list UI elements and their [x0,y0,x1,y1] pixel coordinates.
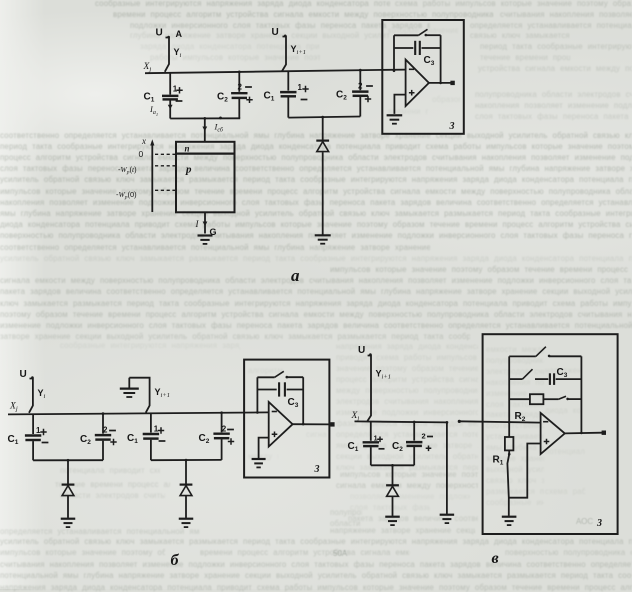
resistor R1 (v) [505,437,514,450]
junction dot C2b [102,412,105,415]
plus input mark (a) [409,90,415,96]
svg-text:n: n [185,144,190,154]
storage bus wire (second pair, a) [288,117,360,118]
svg-text:а: а [291,266,300,285]
wire I_cb to n-p structure [204,118,206,142]
capacitor C2 (second, a) [359,70,361,90]
substrate ground wire (v) [446,421,449,424]
wire X_j bus (b) [8,412,269,414]
svg-text:1: 1 [36,426,41,435]
gate electrode Y_i+1 wire (v) [367,356,371,422]
op-amp U1 (a) [406,60,429,107]
feedback left rail (v) [508,356,510,437]
ground (diode a) [315,234,331,236]
svg-text:2: 2 [238,83,243,92]
output wire (v) [565,432,602,435]
svg-text:Yi: Yi [38,388,46,400]
svg-text:C2: C2 [392,441,403,453]
svg-text:3: 3 [314,464,320,475]
output terminal (b) [330,422,334,426]
junction dot input-rail (v) [508,421,511,424]
capacitor C2 (second, b) [221,413,223,433]
svg-text:2: 2 [103,426,108,435]
svg-text:0: 0 [139,149,144,159]
non-inverting input wire (v) [509,444,541,498]
minus input mark (v) [543,421,548,423]
current arrow I (G lead) [203,222,208,227]
gate electrode Y_i+1 wire (a) [282,37,286,72]
svg-text:C1: C1 [144,92,155,104]
svg-text:C1: C1 [348,441,359,453]
resistor R2 (v) [509,398,530,400]
capacitor C2 (first, b) [102,414,104,434]
op-amp U1 (b) [269,402,293,447]
ground G (n-p box) [198,234,213,236]
output terminal (v) [602,431,606,435]
feedback capacitor C3 (a) [394,47,413,49]
current arrow I_a1 [168,105,173,110]
capacitor C1 (second, b) [150,413,152,432]
ground (R1 v) [502,516,517,518]
svg-text:p: p [185,164,192,176]
amplifier frame box (v) [483,334,618,534]
svg-text:U: U [272,27,279,38]
junction dots bus1 a [203,117,206,120]
diode VD (v) [392,465,394,485]
dashed level -Wp(0) [155,189,175,191]
svg-text:2: 2 [222,425,227,434]
feedback capacitor C3 (v) [535,378,548,380]
svg-text:Xj: Xj [9,402,18,413]
svg-text:Yi+1: Yi+1 [155,387,170,399]
svg-text:R2: R2 [515,411,526,423]
n-p semiconductor box [176,142,235,213]
capacitor C2 (first, a) [238,72,240,92]
dashed level 0 [155,153,175,155]
integrator frame box (a) [382,20,464,134]
svg-text:C1: C1 [8,434,19,446]
diode VD2 (b) [185,460,187,484]
svg-text:-Wp(t): -Wp(t) [118,165,137,176]
x axis line [151,143,153,213]
feedback capacitor C3 (b) [257,389,276,391]
svg-text:1: 1 [154,425,159,434]
svg-text:3: 3 [449,121,455,132]
svg-text:C2: C2 [199,433,210,445]
output wire (a) [429,82,451,84]
wire X_j (v) [355,421,448,422]
capacitor C2 (v) [413,422,415,441]
minus input mark (a) [409,68,414,70]
storage bus (second pair, b) [151,459,222,461]
junction dot bus2 b [185,459,188,462]
svg-text:2: 2 [422,432,426,441]
svg-text:Ia1: Ia1 [149,104,158,117]
svg-text:C1: C1 [264,91,275,103]
svg-text:x: x [141,136,146,146]
svg-text:U: U [20,369,27,380]
ground (gate Y_i+1 b) [128,378,130,388]
n-p junction divider [176,153,235,155]
switch S2 (v) [509,378,522,380]
svg-text:C1: C1 [127,433,138,445]
ground (op-amp b) [252,458,266,460]
junction dot C2b2 [220,411,223,414]
ground (op-amp a) [387,114,403,116]
svg-text:Iсб: Iсб [214,122,224,134]
svg-text:U: U [358,345,365,356]
svg-text:C3: C3 [424,55,435,67]
svg-text:1: 1 [298,83,303,92]
current arrow I_cb [202,127,207,132]
reset switch S (a) [394,34,419,36]
capacitor C1 (first, a) [169,73,171,95]
feedback left rail (b) [256,377,258,412]
svg-text:U: U [156,28,163,39]
non-inverting input ground wire (a) [394,95,405,114]
svg-text:б: б [171,552,180,569]
svg-text:C2: C2 [336,90,347,102]
feedback right rail (a) [440,35,442,83]
capacitor C1 (first, b) [32,414,34,434]
svg-text:1: 1 [374,433,378,442]
input wire (v box) [458,420,461,423]
capacitor C1 (second, a) [287,71,289,90]
svg-text:Yi+1: Yi+1 [291,44,306,56]
x axis arrowhead [150,139,154,145]
plus input mark (b) [272,432,278,438]
svg-text:-Wp(0): -Wp(0) [116,190,137,201]
junction dot bus2 a [321,116,324,119]
switch below R1 (v) [508,453,511,456]
switch S3 (v) [558,396,566,399]
junction dot C2a top [238,71,241,74]
svg-text:C2: C2 [80,434,91,446]
svg-text:2: 2 [358,82,363,91]
reset switch S (b) [257,376,274,378]
junction dot C2v [413,421,416,424]
feedback left rail (a) [393,35,395,71]
dashed level -Wp(t) [155,165,175,167]
svg-text:Yi+1: Yi+1 [376,369,391,381]
storage bus (first pair, b) [33,459,103,461]
diode VD1 (b) [67,460,69,484]
ground (diode1 b) [61,518,76,520]
svg-text:A: A [176,29,183,39]
svg-text:I: I [195,219,200,229]
svg-text:Xj: Xj [351,411,360,422]
feedback right rail (v) [580,356,582,433]
output terminal (a) [450,81,454,85]
ground (diode2 b) [179,518,194,520]
op-amp U1 (v) [541,413,565,454]
svg-text:C3: C3 [557,367,568,379]
junction dot C2a2 top [359,69,362,72]
minus input mark (b) [272,411,277,413]
svg-text:C3: C3 [288,397,299,409]
output wire (b) [293,423,331,425]
capacitor C1 (v) [370,422,372,441]
gate electrode Y_i wire [165,38,169,72]
wire X_j bus (circuit a) [145,70,406,74]
feedback right rail (b) [302,377,304,424]
wire to ground G [204,212,206,233]
storage bus (v) [371,464,414,466]
integrator frame box (b) [244,360,329,478]
junction dot bus v [391,464,394,467]
diode VD (a) [322,117,324,140]
svg-text:Xj: Xj [143,62,152,73]
ground (substrate v) [440,514,455,516]
gate Y_i+1 wire (b) [129,378,149,413]
svg-text:1: 1 [173,85,178,94]
plus input mark (v) [544,439,550,445]
svg-text:R1: R1 [493,455,504,467]
ground (diode v) [385,516,400,518]
storage bus wire (first pair, a) [170,117,240,119]
svg-text:Yi: Yi [174,47,182,59]
non-inverting ground wire (b) [259,438,269,459]
svg-text:в: в [492,550,499,567]
junction dot bus1 b [67,459,70,462]
svg-text:C2: C2 [217,92,228,104]
svg-text:3: 3 [596,518,602,529]
reset switch S1 (v) [509,355,536,357]
gate electrode Y_i wire (b) [29,379,33,413]
